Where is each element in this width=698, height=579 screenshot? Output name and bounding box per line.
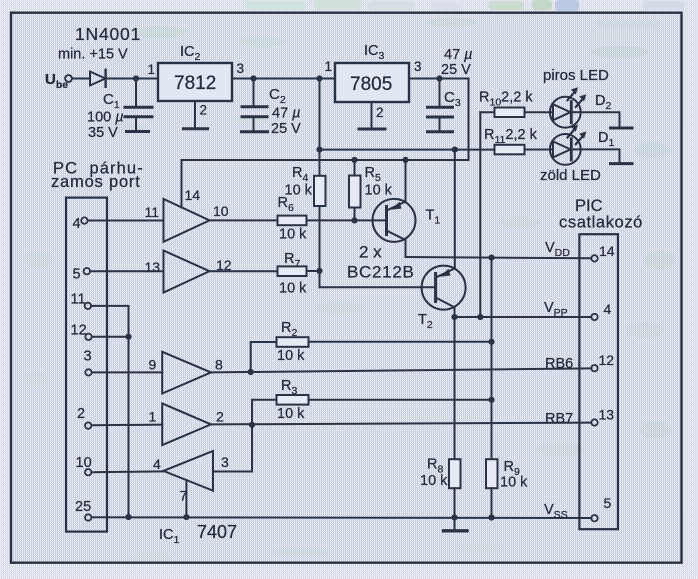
svg-text:10 k: 10 k — [365, 183, 393, 199]
svg-text:35 V: 35 V — [88, 125, 118, 141]
node junction 12V tap — [316, 75, 322, 81]
capacitor C3 — [439, 79, 441, 107]
svg-text:4: 4 — [604, 301, 612, 317]
wire R10 vertical — [479, 112, 481, 317]
svg-text:25: 25 — [75, 499, 91, 515]
svg-text:47 µ: 47 µ — [272, 106, 301, 122]
node pin5 terminal — [84, 268, 90, 274]
svg-text:10 k: 10 k — [420, 473, 448, 489]
wire buffer4 output RB7 line — [211, 423, 591, 425]
svg-text:3: 3 — [221, 454, 229, 470]
svg-text:1: 1 — [148, 62, 156, 77]
resistor R8 — [449, 459, 461, 488]
node junction C2 — [250, 75, 256, 81]
svg-text:10: 10 — [76, 455, 92, 471]
wire buffer1 output to R6 — [210, 219, 278, 221]
node pin2 terminal — [85, 422, 91, 428]
resistor R9 — [486, 459, 498, 488]
ground C2 — [242, 130, 268, 133]
svg-text:min. +15 V: min. +15 V — [58, 47, 128, 63]
svg-text:5: 5 — [604, 495, 612, 511]
svg-text:2: 2 — [77, 406, 85, 422]
wire T2 emitter to 12V rail — [454, 150, 456, 269]
svg-text:14: 14 — [599, 243, 615, 259]
wire T1 base line — [307, 219, 387, 221]
svg-text:11: 11 — [71, 292, 86, 308]
node T2 collector VPP junction — [451, 314, 457, 320]
resistor R7 — [278, 266, 307, 276]
svg-text:14: 14 — [185, 187, 201, 203]
wire pin5 to buffer2 — [90, 270, 163, 272]
wire R2 to VDD vertical — [309, 341, 492, 343]
wire pin10 to buffer5 tip — [92, 470, 164, 473]
buffer gate2 13-12 — [164, 251, 210, 293]
buffer gate5 3-4 reversed — [163, 451, 213, 491]
wire D2 cathode to ground — [581, 112, 620, 127]
svg-text:1: 1 — [325, 59, 333, 74]
svg-text:RB7: RB7 — [545, 411, 573, 427]
node pin12 terminal — [85, 334, 91, 340]
svg-text:1N4001: 1N4001 — [75, 24, 141, 44]
wire T2 base line — [320, 286, 436, 288]
wire 12V rail — [320, 149, 495, 151]
svg-text:zöld LED: zöld LED — [540, 167, 601, 184]
node R3 buffer5 tap on RB7 — [249, 422, 255, 428]
node Ube input terminal — [65, 75, 72, 82]
svg-text:piros LED: piros LED — [543, 67, 609, 84]
node PIC pin12 terminal — [591, 365, 597, 371]
svg-text:10: 10 — [213, 203, 229, 219]
bleed-through artifacts top strip — [246, 0, 685, 41]
LED D2 — [550, 97, 581, 128]
svg-text:5: 5 — [73, 267, 81, 283]
wire VPP line — [455, 316, 592, 318]
wire IC3 pin2 ground stub — [371, 102, 373, 128]
svg-text:7812: 7812 — [174, 73, 216, 94]
svg-text:1: 1 — [149, 409, 157, 425]
svg-text:2: 2 — [216, 409, 224, 425]
ground D2 — [611, 127, 633, 130]
node R2 on VDD vertical — [488, 339, 494, 345]
node R2 tap on RB6 — [248, 369, 254, 375]
svg-text:12: 12 — [599, 352, 615, 368]
wire R3 to VDD vertical — [309, 399, 492, 401]
svg-text:25 V: 25 V — [271, 121, 301, 137]
node R5 bottom on T1 base — [351, 217, 357, 223]
resistor R10 2.2k — [480, 111, 494, 113]
svg-text:4: 4 — [153, 456, 161, 472]
wire buffer2 output to R7 — [210, 270, 278, 272]
svg-text:csatlakozó: csatlakozó — [559, 214, 643, 232]
wire T2 collector to VPP — [454, 307, 456, 317]
node R9 on VDD rail — [488, 255, 494, 261]
node R5 top on 5V rail — [351, 157, 357, 163]
node PIC pin5 terminal — [591, 515, 597, 521]
svg-text:2: 2 — [200, 103, 208, 118]
node junction C1 — [133, 75, 139, 81]
wire T1 emitter to 5V rail — [405, 160, 407, 202]
wire R8 vertical from VPP — [454, 317, 456, 459]
wire diode to IC2 pin1 — [106, 78, 158, 80]
svg-text:8: 8 — [215, 357, 223, 373]
resistor R5 — [354, 160, 356, 176]
svg-text:3: 3 — [84, 349, 92, 365]
wire VSS ground line — [92, 516, 592, 519]
svg-text:12: 12 — [216, 257, 232, 273]
transistor T2 — [422, 266, 466, 310]
diode 1N4001 — [90, 72, 105, 86]
node pin4 terminal — [81, 217, 87, 223]
wire IC2 pin2 ground stub — [194, 101, 196, 127]
node R8 on ground line — [451, 514, 457, 520]
node PIC pin14 terminal — [591, 255, 597, 261]
svg-text:10 k: 10 k — [277, 406, 305, 422]
wire 7407 pin14 stub — [181, 160, 183, 208]
svg-text:100 µ: 100 µ — [87, 110, 124, 126]
wire pin4 to buffer1 — [88, 220, 164, 222]
wire R4 down across T1 base to R7 node — [319, 206, 321, 287]
transistor T1 — [373, 199, 416, 242]
wire R9 vertical from VDD — [491, 258, 493, 460]
svg-text:2 x: 2 x — [359, 243, 382, 262]
svg-text:7407: 7407 — [197, 522, 237, 542]
node R10 on VPP — [477, 314, 483, 320]
wire 5V down from IC3 output — [182, 79, 469, 161]
node PIC pin13 terminal — [591, 419, 597, 425]
svg-text:11: 11 — [145, 204, 160, 220]
svg-text:10 k: 10 k — [285, 183, 313, 199]
svg-text:BC212B: BC212B — [347, 263, 415, 282]
ground C1 — [127, 130, 149, 133]
wire 7407 pin7 ground stub — [185, 480, 187, 517]
svg-text:10 k: 10 k — [500, 475, 528, 491]
node pin25 terminal — [85, 514, 91, 520]
connector PIC csatlakozo box — [579, 234, 618, 529]
svg-text:9: 9 — [149, 357, 157, 373]
node 11-12 line on ground — [125, 514, 131, 520]
wire pin12 — [92, 336, 129, 338]
ground IC2 — [184, 127, 208, 130]
buffer gate1 11-10 — [164, 199, 210, 242]
wire pin11 to pin12 tie — [91, 306, 128, 337]
svg-text:zamos port: zamos port — [51, 173, 141, 191]
svg-text:7: 7 — [180, 488, 188, 504]
wire D1 cathode to ground — [581, 149, 620, 162]
resistor R3 — [252, 400, 277, 425]
svg-text:3: 3 — [237, 61, 245, 76]
svg-text:13: 13 — [599, 407, 615, 423]
resistor R4 — [319, 150, 321, 176]
node R9 on ground line — [488, 514, 494, 520]
node pin3 terminal — [85, 369, 91, 375]
wire T1 collector down to VDD rail — [405, 240, 407, 257]
node junction C3 — [436, 75, 442, 81]
resistor R2 — [251, 342, 277, 372]
wire buffer5 input from RB7 — [213, 425, 252, 472]
wire R7 to R4 node — [307, 270, 320, 272]
node R4-R7 junction — [316, 268, 322, 274]
node pin11 terminal — [85, 303, 91, 309]
wire buffer3 output RB6 line — [211, 368, 591, 372]
wire IC2 pin3 to IC3 pin1 — [232, 78, 335, 80]
svg-text:10 k: 10 k — [277, 348, 305, 364]
ground D1 — [611, 162, 633, 165]
op-amp IC2 7812 regulator box — [158, 63, 232, 101]
svg-text:10 k: 10 k — [279, 281, 307, 297]
node pin11-12 junction — [125, 334, 131, 340]
LED D1 — [550, 134, 581, 165]
node T1 emitter on 5V rail — [402, 157, 408, 163]
buffer gate4 1-2 — [162, 403, 211, 445]
node PIC pin4 terminal — [591, 314, 597, 320]
node R3 on VDD vertical — [488, 397, 494, 403]
wire 12V vertical tap — [319, 79, 321, 150]
capacitor C2 — [253, 79, 255, 106]
wire pin3 to buffer3 — [92, 371, 162, 373]
node 12V-R4 junction — [316, 147, 322, 153]
svg-text:25 V: 25 V — [441, 62, 471, 78]
connector PC parallel port box — [66, 198, 107, 532]
svg-text:2: 2 — [376, 105, 384, 120]
svg-text:10 k: 10 k — [279, 227, 307, 243]
svg-text:RB6: RB6 — [545, 356, 573, 372]
node pin10 terminal — [85, 469, 91, 475]
resistor R11 2,2k — [495, 145, 525, 155]
svg-text:13: 13 — [145, 259, 161, 275]
svg-text:PIC: PIC — [575, 197, 603, 215]
ground symbol main — [454, 517, 456, 529]
capacitor C1 — [135, 79, 137, 107]
resistor R6 — [278, 216, 307, 226]
node pin7 on ground line — [183, 514, 189, 520]
wire VDD rail — [406, 257, 592, 258]
svg-text:3: 3 — [414, 59, 422, 74]
wire pin2 to buffer4 — [92, 424, 163, 427]
svg-text:4: 4 — [73, 216, 81, 232]
wire Ube to diode — [72, 78, 89, 80]
node 12V-T2emitter junction — [452, 147, 458, 153]
wire IC3 pin3 to C3 and corner — [409, 78, 469, 80]
svg-text:12: 12 — [71, 323, 87, 339]
ground IC3 — [359, 128, 385, 131]
ground C3 — [428, 130, 453, 133]
op-amp IC3 7805 regulator box — [335, 63, 409, 102]
wire pins11-12 down to ground line — [128, 337, 130, 517]
buffer gate3 9-8 — [162, 352, 211, 394]
svg-text:7805: 7805 — [350, 74, 392, 95]
svg-text:47 µ: 47 µ — [444, 47, 473, 63]
